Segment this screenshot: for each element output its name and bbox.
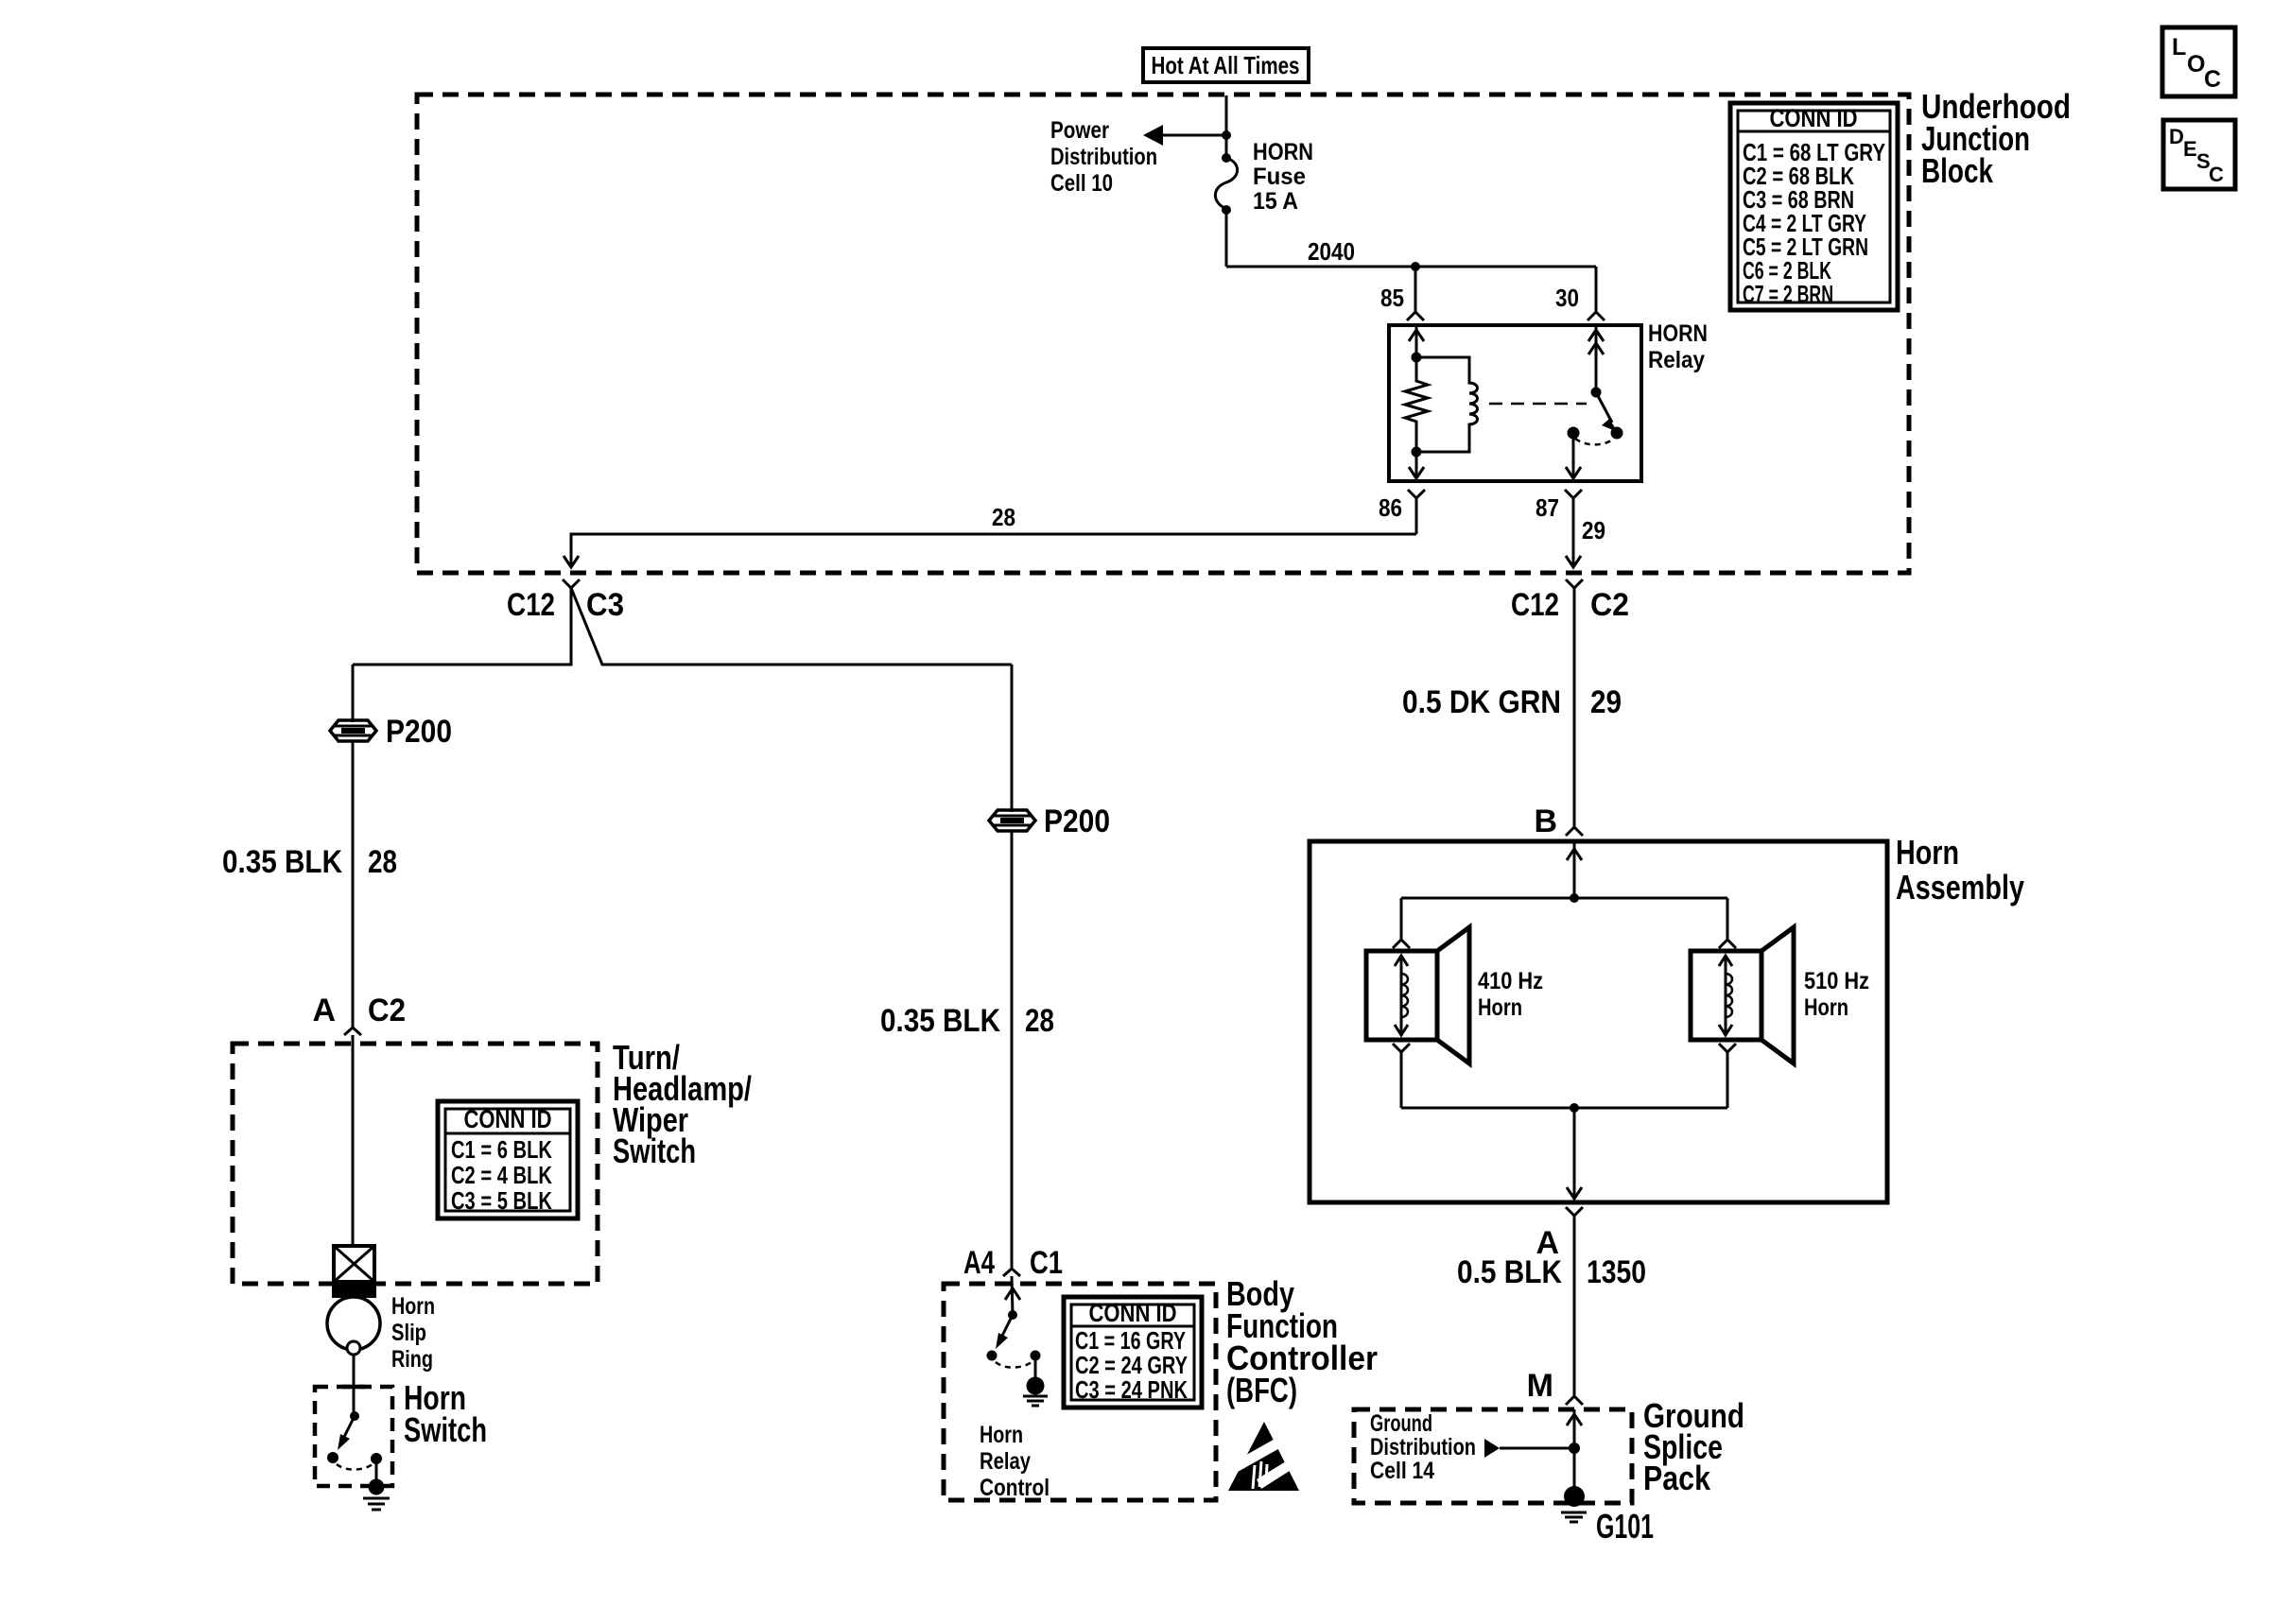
wire down to P200 (left) — [352, 665, 355, 722]
connector chevron below 510 Hz horn — [1719, 1044, 1736, 1052]
svg-text:C3 = 5 BLK: C3 = 5 BLK — [451, 1186, 552, 1215]
node pin 87 contact dot — [1568, 427, 1580, 440]
node horn switch contact dot — [327, 1452, 338, 1463]
arrowhead up at horn assembly entry — [1567, 849, 1582, 860]
svg-text:2040: 2040 — [1308, 237, 1355, 266]
510 Hz horn body — [1691, 927, 1794, 1063]
wire C3 branch diagonal — [571, 588, 1012, 665]
svg-text:28: 28 — [368, 844, 397, 880]
label 410 Hz Horn — [1478, 968, 1543, 1021]
table CONN ID (Underhood Junction Block) — [1730, 103, 1898, 310]
wire from Hot At All Times down — [1225, 95, 1228, 158]
svg-text:D: D — [2169, 125, 2184, 148]
label Horn Assembly — [1896, 833, 2024, 907]
svg-text:P200: P200 — [386, 714, 452, 750]
BFC switch arm — [1002, 1315, 1013, 1336]
node BFC switch pivot dot — [1008, 1310, 1017, 1320]
wire down to P200 (middle) — [1011, 665, 1014, 812]
connector chevron above 510 Hz horn — [1719, 940, 1736, 948]
connector C12/C2 — [1566, 579, 1583, 588]
Horn Assembly box — [1310, 841, 1887, 1202]
svg-text:Hot At All Times: Hot At All Times — [1152, 51, 1300, 79]
wire B into horn assembly — [1573, 843, 1576, 898]
wire slip ring to horn switch — [353, 1355, 356, 1416]
arrowhead up into relay pin 85 — [1409, 330, 1424, 341]
horn slip ring circle — [327, 1297, 380, 1350]
connector chevron below 410 Hz horn — [1393, 1044, 1410, 1052]
svg-text:CONN ID: CONN ID — [1770, 104, 1858, 132]
svg-text:1350: 1350 — [1587, 1254, 1646, 1290]
arrowhead horn switch arm — [338, 1434, 350, 1450]
fuse HORN Fuse 15 A — [1215, 153, 1237, 215]
svg-text:Horn: Horn — [391, 1293, 435, 1320]
wire 410 Hz horn to ground bus — [1400, 1052, 1403, 1108]
410 Hz horn body — [1366, 927, 1469, 1063]
wire contact to ground (horn switch) — [375, 1459, 378, 1480]
wire drop to 510 Hz horn — [1726, 898, 1729, 939]
wire to Power Distribution — [1161, 134, 1226, 137]
wire into Turn switch box — [352, 1035, 355, 1248]
connector B chevron — [1566, 827, 1583, 836]
svg-text:G101: G101 — [1596, 1507, 1654, 1546]
label Horn Slip Ring — [391, 1293, 435, 1373]
arrowhead down at horn assembly exit — [1567, 1187, 1582, 1199]
svg-text:Assembly: Assembly — [1896, 868, 2024, 907]
wire contact to ground (BFC) — [1034, 1356, 1037, 1378]
svg-text:Horn: Horn — [980, 1422, 1023, 1448]
arrowhead up at BFC entry — [1005, 1288, 1020, 1300]
svg-text:C: C — [2209, 163, 2224, 186]
svg-text:B: B — [1534, 803, 1557, 839]
node BFC contact dot — [987, 1351, 998, 1361]
horn slip ring contact circle — [347, 1341, 360, 1355]
label Power Distribution Cell 10 — [1050, 117, 1157, 197]
svg-text:C1: C1 — [1030, 1245, 1063, 1281]
ground G101 — [1561, 1486, 1587, 1522]
node junction dot 2040 — [1411, 262, 1420, 271]
connector chevron above 410 Hz horn — [1393, 940, 1410, 948]
label 510 Hz Horn — [1804, 968, 1869, 1021]
svg-text:Slip: Slip — [391, 1320, 426, 1346]
svg-text:29: 29 — [1582, 516, 1605, 544]
LOC box — [2162, 27, 2235, 96]
table CONN ID (BFC) — [1064, 1297, 1202, 1408]
svg-text:A: A — [312, 993, 336, 1028]
Ground Splice Pack dashed box — [1354, 1409, 1632, 1503]
svg-text:Ground: Ground — [1370, 1410, 1432, 1437]
label Horn Relay Control — [980, 1422, 1050, 1501]
wire circuit 29 inside UJB — [1572, 498, 1575, 567]
svg-text:P200: P200 — [1044, 803, 1110, 839]
svg-text:0.5 DK GRN: 0.5 DK GRN — [1402, 684, 1561, 720]
Turn/Headlamp/Wiper Switch dashed box — [233, 1044, 598, 1284]
node splice junction dot — [1569, 1443, 1580, 1454]
arrowhead down at UJB border (29) — [1566, 556, 1581, 567]
svg-text:85: 85 — [1380, 284, 1404, 312]
wire into ground splice pack — [1573, 1409, 1576, 1496]
arrowhead up pin 30 (outer) — [1588, 330, 1604, 341]
svg-text:C2: C2 — [1590, 587, 1629, 623]
svg-text:Cell 10: Cell 10 — [1050, 170, 1113, 197]
arrowhead up pin 30 (inner) — [1588, 343, 1604, 354]
relay coil — [1416, 357, 1478, 452]
table CONN ID (Turn switch) — [438, 1101, 578, 1218]
connector C12/C3 — [563, 579, 580, 588]
svg-text:C12: C12 — [507, 587, 555, 623]
horn switch arm — [344, 1416, 355, 1437]
svg-text:Horn: Horn — [1896, 833, 1959, 872]
svg-text:Distribution: Distribution — [1050, 144, 1157, 170]
connector A chevron — [1566, 1207, 1583, 1216]
svg-text:Fuse: Fuse — [1253, 164, 1306, 190]
svg-text:0.35 BLK: 0.35 BLK — [222, 844, 342, 880]
wire drop to 410 Hz horn — [1400, 898, 1403, 939]
relay switch arm — [1596, 392, 1612, 423]
svg-text:410 Hz: 410 Hz — [1478, 968, 1543, 994]
connector M chevron — [1566, 1396, 1583, 1405]
svg-text:Pack: Pack — [1643, 1459, 1711, 1497]
svg-text:29: 29 — [1590, 684, 1622, 720]
svg-text:C2 = 4 BLK: C2 = 4 BLK — [451, 1161, 552, 1189]
wire Ground Distribution — [1500, 1447, 1574, 1450]
svg-text:510 Hz: 510 Hz — [1804, 968, 1869, 994]
connector P200 (left) — [330, 720, 376, 741]
relay coil branch wire from pin 85 — [1415, 327, 1418, 357]
Underhood Junction Block label — [1921, 87, 2071, 190]
svg-text:(BFC): (BFC) — [1226, 1371, 1297, 1409]
pin 85 connector chevron — [1407, 312, 1424, 320]
DESC box — [2163, 120, 2235, 189]
label Horn Switch — [404, 1378, 487, 1449]
svg-text:Horn: Horn — [1804, 994, 1848, 1021]
label HORN Fuse 15 A — [1253, 139, 1313, 215]
svg-text:C3: C3 — [586, 587, 624, 623]
label HORN Relay — [1648, 320, 1708, 373]
dashed throw arc (BFC) — [996, 1362, 1032, 1368]
svg-text:15 A: 15 A — [1253, 188, 1298, 215]
horn slip ring X-box — [334, 1246, 374, 1282]
arrowhead BFC switch arm — [996, 1333, 1008, 1349]
node horn switch ground contact dot — [371, 1453, 382, 1464]
wire contact to pin 87 — [1572, 433, 1575, 478]
relay HORN Relay box — [1389, 325, 1641, 481]
node switch pivot dot — [1591, 388, 1602, 398]
arrowhead up at splice entry — [1567, 1414, 1582, 1425]
svg-text:30: 30 — [1555, 284, 1579, 312]
node horn feed junction dot — [1570, 893, 1579, 903]
label Ground Splice Pack — [1643, 1396, 1744, 1497]
Body Function Controller dashed box — [944, 1284, 1216, 1500]
node switch contact dot (NO) — [1611, 427, 1623, 440]
dashed throw arc — [1575, 439, 1614, 444]
svg-text:Switch: Switch — [613, 1132, 696, 1170]
node Hot At All Times — [1143, 48, 1309, 82]
wire pin 30 into relay — [1595, 327, 1598, 392]
svg-text:C12: C12 — [1511, 587, 1559, 623]
wire circuit 28 inside UJB — [571, 534, 1416, 567]
arrowhead Power Distribution — [1143, 125, 1163, 146]
svg-text:Horn: Horn — [1478, 994, 1522, 1021]
Underhood Junction Block dashed border — [417, 95, 1909, 573]
svg-text:C3 = 24 PNK: C3 = 24 PNK — [1075, 1375, 1188, 1404]
node junction dot at fuse tap — [1222, 130, 1231, 140]
wire to pin 30 — [1595, 267, 1598, 311]
connector P200 (middle) — [989, 810, 1035, 831]
svg-text:Relay: Relay — [980, 1448, 1031, 1475]
svg-text:Relay: Relay — [1648, 347, 1705, 373]
arrowhead down to pin 86 — [1409, 467, 1424, 478]
resistor (relay) — [1405, 357, 1428, 452]
node coil top dot — [1412, 353, 1422, 363]
wire P200 to BFC (0.35 BLK 28) — [1011, 830, 1014, 1268]
node coil bottom dot — [1412, 447, 1422, 458]
svg-text:Cell 14: Cell 14 — [1370, 1458, 1434, 1484]
svg-text:Block: Block — [1921, 151, 1994, 190]
horn slip ring black band — [332, 1282, 376, 1298]
svg-text:Switch: Switch — [404, 1410, 487, 1449]
wire 0.5 BLK 1350 — [1573, 1216, 1576, 1395]
wire resistor to relay bottom — [1415, 452, 1418, 478]
svg-text:O: O — [2187, 51, 2205, 78]
dashed throw arc (horn switch) — [337, 1464, 373, 1470]
ground (horn switch) — [363, 1479, 390, 1511]
wire 0.5 DK GRN 29 — [1573, 588, 1576, 826]
node horn ground junction dot — [1570, 1103, 1579, 1113]
ground (BFC) — [1023, 1377, 1048, 1407]
relay actuation dashed link — [1489, 403, 1587, 406]
node horn switch pivot dot — [350, 1411, 359, 1421]
wire to pin 85 — [1414, 267, 1417, 311]
wire tick at Horn Switch border crossing — [342, 1385, 365, 1390]
connector A4/C1 — [1003, 1269, 1020, 1276]
wire 510 Hz horn to ground bus — [1726, 1052, 1729, 1108]
ESD sensitive device symbol — [1226, 1422, 1303, 1491]
svg-text:Distribution: Distribution — [1370, 1434, 1476, 1460]
wire C12 branch down-left — [353, 588, 571, 665]
wire to horn assembly exit — [1573, 1108, 1576, 1199]
wire horn ground bus — [1401, 1107, 1727, 1110]
svg-text:28: 28 — [1025, 1003, 1054, 1039]
svg-text:C7 = 2 BRN: C7 = 2 BRN — [1743, 280, 1833, 308]
wire horn feed bus — [1401, 897, 1727, 900]
svg-text:C2: C2 — [368, 993, 406, 1028]
svg-text:C1 = 6 BLK: C1 = 6 BLK — [451, 1135, 552, 1164]
svg-text:E: E — [2183, 137, 2197, 161]
svg-text:Control: Control — [980, 1475, 1050, 1501]
label Turn/Headlamp/Wiper Switch — [613, 1038, 752, 1170]
node BFC ground contact dot — [1031, 1351, 1041, 1361]
pin 87 connector chevron — [1565, 490, 1582, 498]
wire 2040 bus — [1226, 266, 1596, 268]
svg-text:28: 28 — [992, 503, 1015, 531]
Horn Switch dashed box — [315, 1387, 392, 1486]
svg-text:0.5 BLK: 0.5 BLK — [1457, 1254, 1562, 1290]
svg-text:M: M — [1527, 1368, 1553, 1404]
pin 86 connector chevron — [1408, 490, 1425, 498]
svg-text:Ring: Ring — [391, 1346, 433, 1373]
pin 30 connector chevron — [1588, 312, 1605, 320]
svg-text:87: 87 — [1536, 493, 1559, 522]
wire P200 to switch (0.35 BLK 28) — [352, 740, 355, 1027]
wire fuse to 2040 bus — [1225, 210, 1228, 267]
svg-text:C: C — [2204, 66, 2221, 93]
wire pin 86 down — [1415, 498, 1418, 534]
wire into BFC — [1012, 1276, 1013, 1315]
label Body Function Controller (BFC) — [1226, 1274, 1378, 1409]
svg-text:HORN: HORN — [1648, 320, 1708, 347]
svg-text:CONN ID: CONN ID — [464, 1105, 552, 1133]
arrowhead down at UJB border (28) — [564, 556, 579, 567]
svg-text:86: 86 — [1379, 493, 1402, 522]
connector A/C2 — [344, 1028, 361, 1035]
arrowhead switch arm — [1602, 419, 1618, 432]
svg-text:L: L — [2172, 34, 2186, 60]
svg-text:Power: Power — [1050, 117, 1109, 144]
label Ground Distribution Cell 14 — [1370, 1410, 1476, 1484]
svg-text:0.35 BLK: 0.35 BLK — [880, 1003, 1000, 1039]
svg-text:HORN: HORN — [1253, 139, 1313, 165]
arrowhead down to pin 87 — [1566, 467, 1581, 478]
svg-text:CONN ID: CONN ID — [1089, 1299, 1177, 1327]
arrowhead Ground Distribution — [1484, 1439, 1500, 1458]
svg-text:A4: A4 — [963, 1245, 995, 1281]
